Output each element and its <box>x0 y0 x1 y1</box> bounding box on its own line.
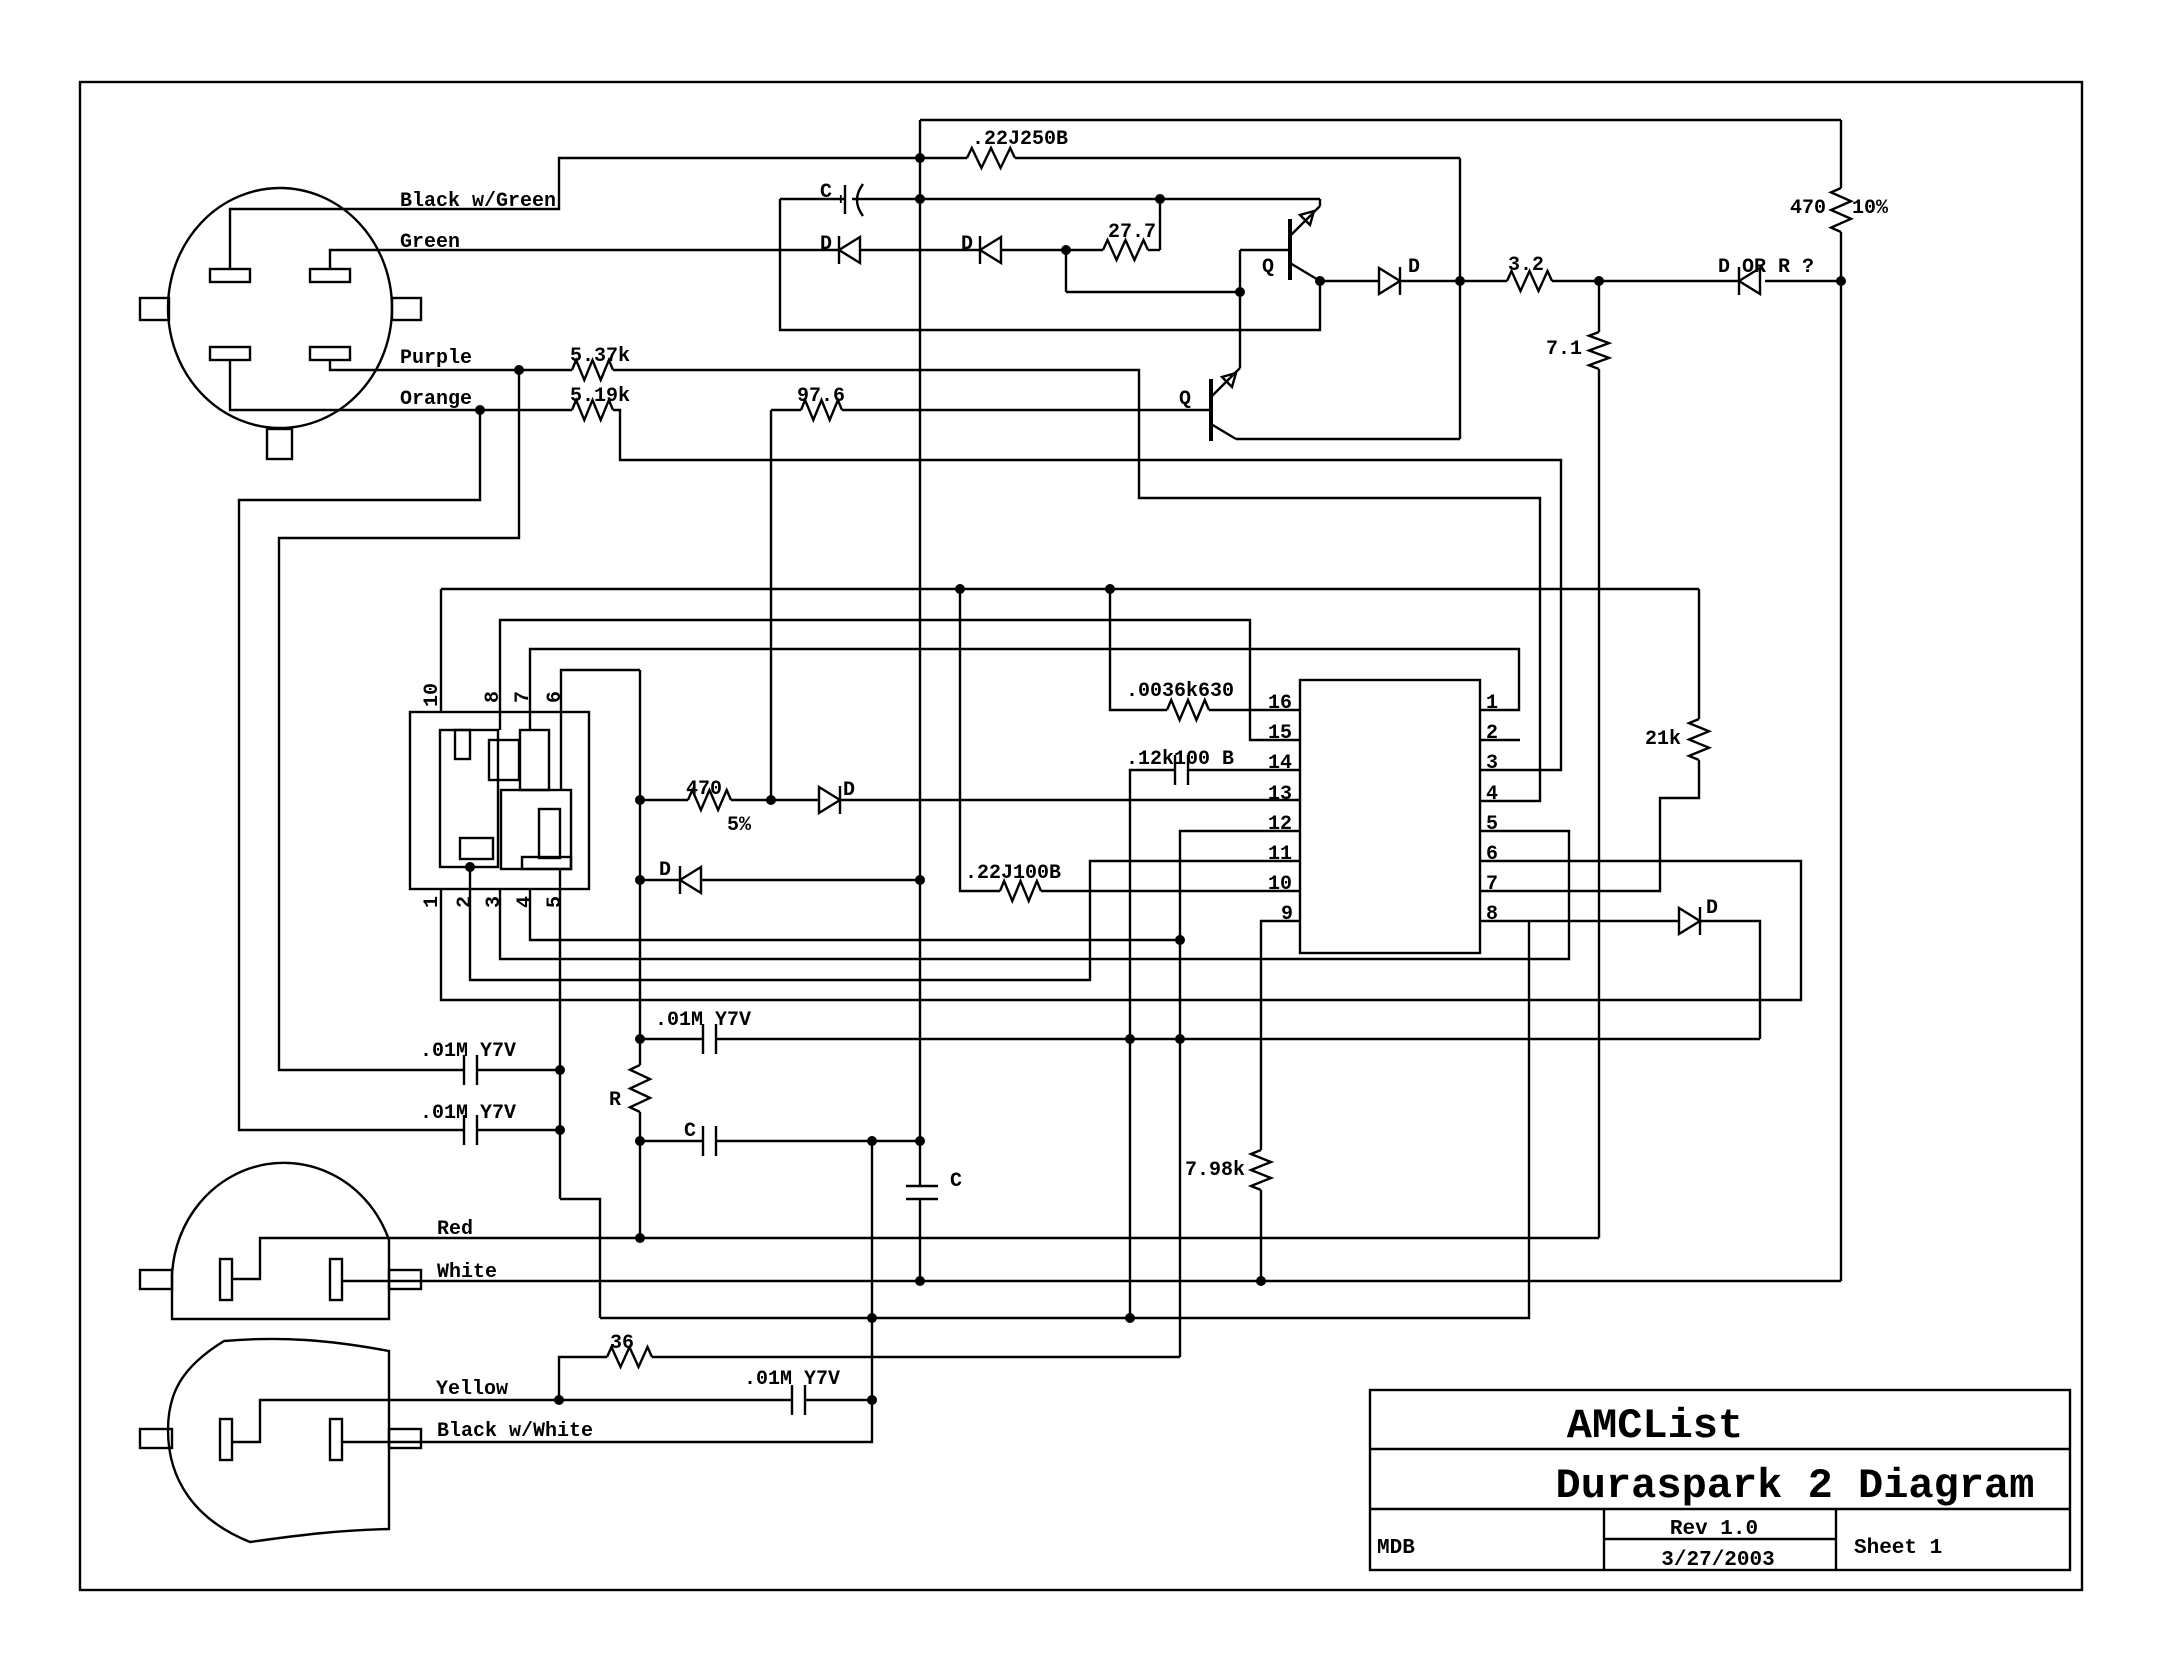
wire Q1 to D3 <box>1320 280 1379 282</box>
wire Black w/White from P2 <box>342 1400 872 1442</box>
wire Green from J1 top-right pin <box>330 250 839 269</box>
capacitor .01M Y7V row2 <box>463 1115 465 1145</box>
svg-text:5: 5 <box>544 896 567 908</box>
svg-text:AMCList: AMCList <box>1567 1402 1743 1450</box>
svg-text:5.37k: 5.37k <box>570 345 630 368</box>
node junction x1460 y281 <box>1455 276 1465 286</box>
resistor 470 5% <box>688 790 731 810</box>
J1 pin contact top-right <box>310 269 350 282</box>
svg-text:2: 2 <box>1486 722 1498 745</box>
wire .0036k630 branch <box>1110 589 1167 710</box>
transistor Q1 emitter <box>1290 206 1320 236</box>
svg-text:2: 2 <box>454 896 477 908</box>
node junction x560 y1070 <box>555 1065 565 1075</box>
wire module pin8 to IC pin15 <box>500 620 1300 740</box>
wire .0036k630 to IC pin16 <box>1209 709 1300 711</box>
capacitor .01M Y7V row1 <box>463 1055 465 1085</box>
title block divider col1 <box>1603 1509 1605 1570</box>
transistor Q2 emitter <box>1211 368 1240 397</box>
svg-text:7.1: 7.1 <box>1546 338 1582 361</box>
resistor 7.1 vertical <box>1598 281 1600 332</box>
svg-text:8: 8 <box>482 691 505 703</box>
svg-text:D: D <box>1706 897 1718 920</box>
wire module pin7 to IC pin1 <box>530 649 1519 712</box>
title block divider col2 <box>1835 1509 1837 1570</box>
svg-text:21k: 21k <box>1645 728 1681 751</box>
svg-text:R: R <box>609 1089 621 1112</box>
wire module pin3 to IC pin5 <box>500 831 1569 959</box>
wire 7.98k to White <box>1260 1190 1262 1281</box>
svg-text:C: C <box>684 1120 696 1143</box>
wire 21k to IC pin7 <box>1480 760 1699 891</box>
transistor Q2 emitter arrowhead <box>1222 373 1236 387</box>
wire pin5 jog <box>560 1199 600 1318</box>
wire D5 west <box>640 879 680 881</box>
node junction x771 y800 <box>766 795 776 805</box>
J1 pin contact bottom-left <box>210 347 250 360</box>
wire module pin5 column <box>559 869 561 1199</box>
wire base ladder riser x1240 <box>1239 250 1241 368</box>
module pin5 key inner <box>539 809 560 858</box>
wire top rail y120 <box>920 119 1841 121</box>
svg-text:15: 15 <box>1268 722 1292 745</box>
diode D5 <box>679 866 681 894</box>
wire D4 to IC pin13 <box>840 799 1300 801</box>
wire Red from P1 <box>232 1238 1599 1279</box>
svg-text:Orange: Orange <box>400 388 472 411</box>
wire module pin1 to IC pin6 <box>441 861 1801 1000</box>
svg-text:10: 10 <box>1268 873 1292 896</box>
node junction x1240 y292 <box>1235 287 1245 297</box>
node junction x920 y199 <box>915 194 925 204</box>
svg-text:Sheet 1: Sheet 1 <box>1854 1537 1942 1560</box>
transistor Q2 collector <box>1211 424 1236 439</box>
svg-text:Red: Red <box>437 1218 473 1241</box>
svg-text:3: 3 <box>1486 752 1498 775</box>
resistor 5.19k <box>572 400 613 420</box>
resistor 97.6 <box>801 400 842 420</box>
wire D3 to node <box>1400 280 1460 282</box>
module center-top key <box>489 740 519 780</box>
node junction x640 y1039 <box>635 1034 645 1044</box>
svg-text:14: 14 <box>1268 752 1292 775</box>
P2 pin right <box>330 1419 342 1460</box>
resistor .0036k630 <box>1167 700 1209 720</box>
diode D2 <box>979 236 981 264</box>
transistor Q1 collector <box>1290 263 1320 281</box>
module pin8 inner stem <box>499 712 501 730</box>
wire riser x920 <box>919 120 921 1186</box>
wire y1039 rail <box>640 1038 703 1040</box>
wire White from P1 <box>342 1280 1841 1282</box>
J1 pin contact top-left <box>210 269 250 282</box>
node junction x640 y1141 <box>635 1136 645 1146</box>
wire D6 east <box>1700 921 1760 1039</box>
P2 right tab <box>389 1429 421 1448</box>
title block divider row2 <box>1370 1508 2070 1510</box>
node junction x1841 y281 <box>1836 276 1846 286</box>
transistor Q1 emitter arrowhead <box>1300 211 1314 225</box>
wire C east <box>716 1140 920 1142</box>
svg-text:.12k100 B: .12k100 B <box>1126 748 1234 771</box>
capacitor .01M Y7V row4 <box>791 1385 793 1415</box>
wire Orange to resistor <box>480 409 572 411</box>
wire bus x872 <box>871 1141 873 1400</box>
diode D4 <box>819 787 840 813</box>
P1 pin left <box>220 1259 232 1300</box>
svg-text:Rev 1.0: Rev 1.0 <box>1670 1518 1758 1541</box>
svg-text:.0036k630: .0036k630 <box>1126 680 1234 703</box>
wire Orange branch to .01M cap row2 <box>239 410 480 1130</box>
wire .22J100B branch <box>960 589 1000 891</box>
wire 36 east <box>652 1356 1180 1358</box>
svg-text:13: 13 <box>1268 783 1292 806</box>
wire 21k branch <box>1698 589 1700 719</box>
node junction x559 y1398 <box>554 1395 564 1405</box>
capacitor .01M Y7V row3 <box>702 1024 704 1054</box>
capacitor C2 vertical <box>906 1185 938 1187</box>
resistor 36 <box>607 1347 652 1367</box>
node junction x920 y158 <box>915 153 925 163</box>
module pin5 bar <box>522 857 571 869</box>
module pin7 key <box>520 730 549 790</box>
wire bus x640 down <box>639 670 641 1065</box>
svg-text:Duraspark 2 Diagram: Duraspark 2 Diagram <box>1556 1462 2035 1510</box>
node junction x1599 y281 <box>1594 276 1604 286</box>
magnetic pickup connector P2 body <box>168 1339 389 1542</box>
wire IC pin12 branch <box>1180 831 1300 1357</box>
node junction x920 y1281 <box>915 1276 925 1286</box>
diode D6 <box>1679 908 1700 934</box>
svg-text:5.19k: 5.19k <box>570 385 630 408</box>
node Q1 collector junction <box>1315 276 1325 286</box>
svg-text:.22J250B: .22J250B <box>972 128 1068 151</box>
wire diode to right rail <box>1765 280 1841 282</box>
svg-text:Q: Q <box>1179 388 1191 411</box>
svg-text:D: D <box>659 859 671 882</box>
J1 left tab <box>140 298 169 320</box>
ignition module connector body <box>410 712 589 889</box>
P2 left tab <box>140 1429 172 1448</box>
capacitor .12k100 B <box>1174 755 1176 785</box>
svg-text:.01M Y7V: .01M Y7V <box>420 1102 516 1125</box>
svg-text:.01M Y7V: .01M Y7V <box>420 1040 516 1063</box>
IC pin9 stub to 7.98k <box>1261 921 1300 1150</box>
module pin7 inner stem <box>529 712 531 730</box>
svg-text:7: 7 <box>1486 873 1498 896</box>
distributor cap connector J1 body <box>168 188 392 428</box>
node junction x1261 y1281 <box>1256 1276 1266 1286</box>
svg-text:470: 470 <box>686 778 722 801</box>
svg-text:D OR R ?: D OR R ? <box>1718 256 1814 279</box>
svg-text:7: 7 <box>512 691 535 703</box>
svg-text:Black w/White: Black w/White <box>437 1420 593 1443</box>
svg-text:.01M Y7V: .01M Y7V <box>655 1009 751 1032</box>
J1 bottom tab <box>267 429 292 459</box>
svg-text:C: C <box>820 181 832 204</box>
svg-text:D: D <box>1408 256 1420 279</box>
svg-text:Green: Green <box>400 231 460 254</box>
svg-text:MDB: MDB <box>1377 1537 1415 1560</box>
svg-text:D: D <box>820 233 832 256</box>
node junction x872 y1318 <box>867 1313 877 1323</box>
node junction x519 y370 <box>514 365 524 375</box>
svg-text:11: 11 <box>1268 843 1292 866</box>
node junction x480 y410 <box>475 405 485 415</box>
module bottom-left key <box>460 838 493 859</box>
wire module pin4 to y940 <box>530 889 1180 940</box>
J1 pin contact bottom-right <box>310 347 350 360</box>
wire riser x771 <box>770 410 772 800</box>
wire module pin6 riser <box>561 670 640 712</box>
wire node to D OR R diode <box>1599 280 1739 282</box>
wire Q2 collector loop <box>1236 438 1460 440</box>
svg-text:5: 5 <box>1486 813 1498 836</box>
IC pin2 stub <box>1480 739 1520 741</box>
wire 470 5% west <box>640 799 688 801</box>
wire C2 to White <box>919 1199 921 1281</box>
node junction x640 y800 <box>635 795 645 805</box>
node junction x1110 y589 <box>1105 584 1115 594</box>
svg-text:4: 4 <box>1486 783 1498 806</box>
svg-text:Black w/Green: Black w/Green <box>400 190 556 213</box>
diode D1 <box>838 236 840 264</box>
svg-text:3.2: 3.2 <box>1508 254 1544 277</box>
node module pin2 junction <box>465 862 475 872</box>
svg-text:6: 6 <box>1486 843 1498 866</box>
module inner shell <box>440 730 498 867</box>
svg-text:.01M Y7V: .01M Y7V <box>744 1368 840 1391</box>
title block frame <box>1370 1390 2070 1570</box>
module key notch <box>455 730 470 759</box>
node junction x872 y1398 <box>867 1395 877 1405</box>
diode D OR R ? <box>1738 267 1740 295</box>
svg-text:C: C <box>950 1170 962 1193</box>
resistor 21k <box>1689 719 1709 760</box>
J1 right tab <box>392 298 421 320</box>
node junction x1180 y940 <box>1175 935 1185 945</box>
wire module pin2 to IC pin11 <box>470 861 1300 980</box>
node junction x1066 y250 <box>1061 245 1071 255</box>
wire riser x1460 <box>1459 158 1461 439</box>
resistor 5.37k <box>572 360 613 380</box>
wire 470 to node <box>731 799 771 801</box>
node junction x1130 y1318 <box>1125 1313 1135 1323</box>
module mid-right shell <box>501 790 571 869</box>
svg-text:8: 8 <box>1486 903 1498 926</box>
wire Purple branch to .01M cap row1 <box>279 370 519 1070</box>
wire net pin10 to 21k rail y589 <box>441 588 1699 590</box>
wire .22J100B to IC pin10 <box>1041 890 1300 892</box>
wire .12k100B west branch <box>1130 770 1175 1318</box>
svg-text:4: 4 <box>514 896 537 908</box>
transistor Q1 base bar <box>1288 219 1292 280</box>
IC U1 body <box>1300 680 1480 953</box>
svg-text:3/27/2003: 3/27/2003 <box>1661 1549 1774 1572</box>
resistor .22J250B <box>967 148 1015 168</box>
wire y292 into base ladder <box>1066 291 1240 293</box>
module pin6 inner stem <box>560 712 562 790</box>
wire 97.6 base feed <box>771 409 801 411</box>
resistor R <box>630 1065 650 1112</box>
svg-text:16: 16 <box>1268 692 1292 715</box>
svg-text:Q: Q <box>1262 256 1274 279</box>
node junction x640 y1238 <box>635 1233 645 1243</box>
svg-text:97.6: 97.6 <box>797 385 845 408</box>
svg-text:10%: 10% <box>1852 197 1889 220</box>
title block divider rev/date <box>1604 1538 1836 1540</box>
P2 pin left <box>220 1419 232 1460</box>
wire cap row2 to x560 <box>477 1129 560 1131</box>
resistor 470 10% vertical <box>1840 120 1842 188</box>
node junction x920 y1141 <box>915 1136 925 1146</box>
capacitor C+ <box>844 185 846 214</box>
wire D2 to 27.7 <box>1001 249 1103 251</box>
node junction x1130 y1039 <box>1125 1034 1135 1044</box>
svg-text:6: 6 <box>544 691 567 703</box>
P1 left tab <box>140 1270 172 1289</box>
diode D3 <box>1379 268 1400 294</box>
wire 27.7 to riser <box>1148 249 1160 251</box>
node junction x872 y1141 <box>867 1136 877 1146</box>
svg-text:9: 9 <box>1281 903 1293 926</box>
resistor .22J100B <box>1000 881 1041 901</box>
wire .12k100B to IC pin14 <box>1188 769 1300 771</box>
transistor Q2 base bar <box>1209 379 1213 441</box>
wire module pin10 riser <box>440 589 442 712</box>
P1 pin right <box>330 1259 342 1300</box>
wire Orange east <box>613 410 1561 770</box>
wire IC pin8 out <box>1480 920 1679 922</box>
svg-text:D: D <box>843 779 855 802</box>
node junction x1160 y199 <box>1155 194 1165 204</box>
resistor 3.2 <box>1460 280 1507 282</box>
svg-text:27.7: 27.7 <box>1108 221 1156 244</box>
node junction x960 y589 <box>955 584 965 594</box>
svg-text:12: 12 <box>1268 813 1292 836</box>
node junction x920 y880 <box>915 875 925 885</box>
svg-text:5%: 5% <box>727 814 752 837</box>
wire C+ rail <box>852 198 1320 200</box>
wire 36 branch <box>559 1357 607 1400</box>
wire Purple east <box>613 370 1540 801</box>
resistor 7.98k <box>1251 1150 1271 1190</box>
wire node to D4 <box>771 799 819 801</box>
wire C+ left leg down <box>780 199 1320 330</box>
wire riser x1160 to C+ rail <box>1159 199 1161 250</box>
wire Purple to resistor <box>519 369 572 371</box>
svg-text:3: 3 <box>483 896 506 908</box>
wire Yellow cap east <box>805 1399 872 1401</box>
wire riser x1066 <box>1065 250 1067 292</box>
wire C west <box>640 1140 703 1142</box>
svg-text:.22J100B: .22J100B <box>965 862 1061 885</box>
magnetic pickup connector P1 body <box>172 1163 389 1319</box>
title block divider row1 <box>1370 1448 2070 1450</box>
svg-text:Purple: Purple <box>400 347 472 370</box>
wire 97.6 to Q2 base <box>842 409 1211 411</box>
node junction x1180 y1039 <box>1175 1034 1185 1044</box>
wire Black w/Green from J1 top-left pin <box>230 158 967 269</box>
svg-text:Yellow: Yellow <box>436 1378 508 1401</box>
wire Purple from J1 bottom-right pin <box>330 360 519 370</box>
svg-text:White: White <box>437 1261 497 1284</box>
wire D5 to x920 <box>701 879 920 881</box>
P1 right tab <box>389 1270 421 1289</box>
resistor 27.7 <box>1103 240 1148 260</box>
wire Yellow from P2 <box>232 1400 792 1442</box>
wire pin8 riser x1529 <box>600 921 1529 1318</box>
svg-text:1: 1 <box>1486 692 1498 715</box>
wire y1039 rail east <box>716 1038 1760 1040</box>
capacitor C <box>702 1126 704 1156</box>
node junction x640 y880 <box>635 875 645 885</box>
wire between diodes <box>860 249 980 251</box>
wire right rail x1841 down <box>1840 280 1842 1281</box>
svg-text:D: D <box>961 233 973 256</box>
wire cap row1 to x560 <box>477 1069 560 1071</box>
svg-text:7.98k: 7.98k <box>1185 1159 1245 1182</box>
svg-text:470: 470 <box>1790 197 1826 220</box>
transistor Q1 base wire <box>1240 249 1290 251</box>
node junction x560 y1130 <box>555 1125 565 1135</box>
wire .22J250B to right riser <box>1015 157 1460 159</box>
svg-text:36: 36 <box>610 1332 634 1355</box>
wire Orange from J1 bottom-left pin <box>230 360 480 410</box>
